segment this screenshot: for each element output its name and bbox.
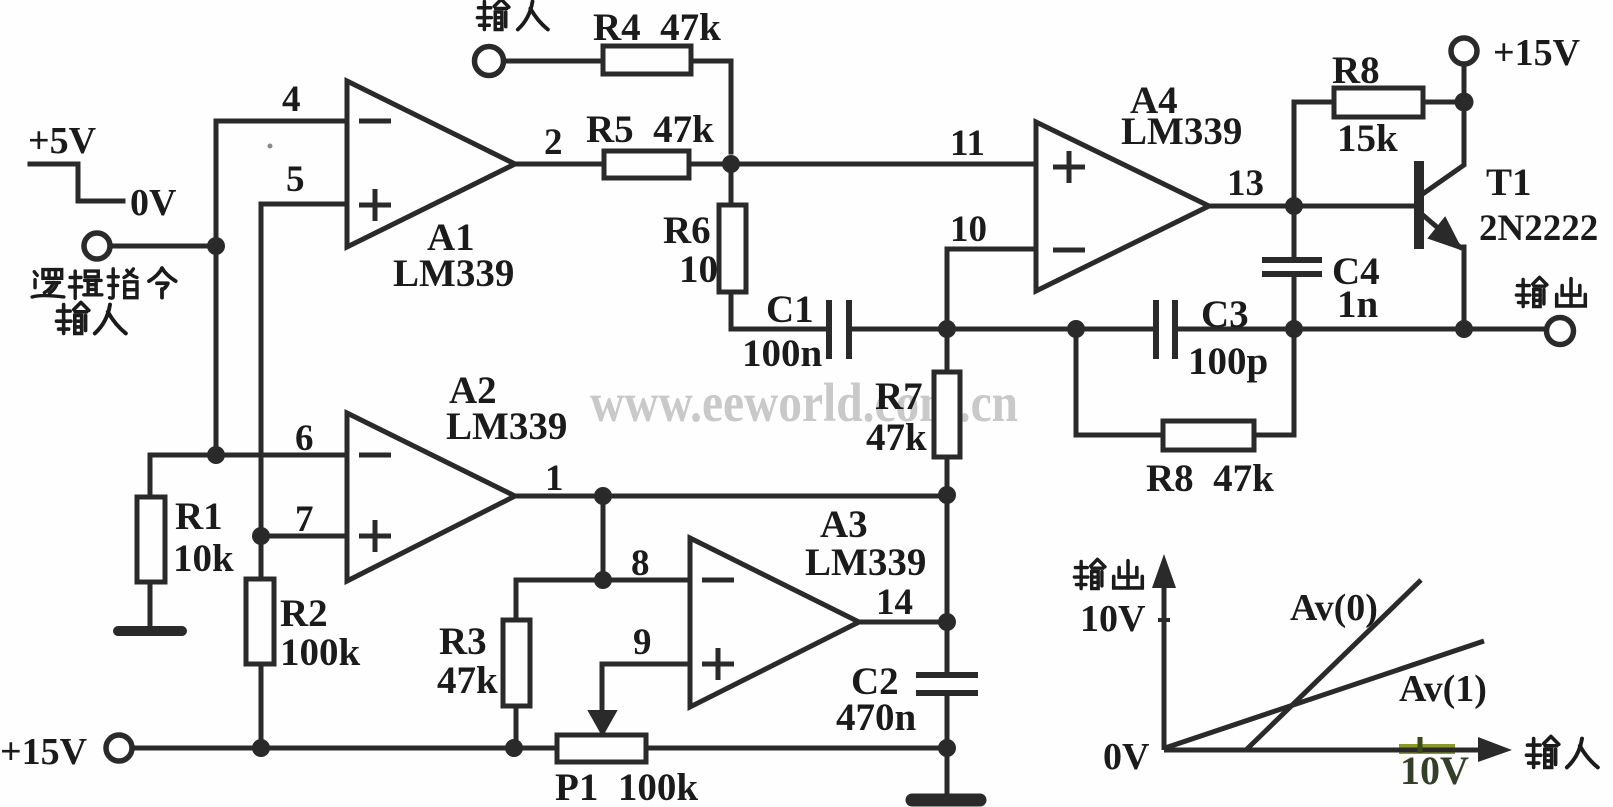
svg-text:10V: 10V	[1080, 598, 1146, 640]
wire node N1 to C3	[947, 327, 1152, 332]
svg-text:8: 8	[631, 543, 650, 584]
resistor R6	[719, 205, 746, 292]
resistor R8 15k	[1334, 88, 1423, 117]
svg-text:10V: 10V	[1400, 748, 1469, 793]
svg-text:100k: 100k	[280, 631, 361, 674]
graph line Av0	[1247, 580, 1421, 749]
svg-text:R4 47k: R4 47k	[593, 6, 721, 49]
svg-text:R6: R6	[663, 209, 711, 252]
node junction rail C2	[938, 739, 956, 757]
wire output row	[1294, 327, 1547, 332]
wire emitter to output row	[1462, 247, 1467, 329]
wire R6 to C1 row	[731, 292, 824, 329]
label 输入 top	[477, 0, 548, 30]
wire R7 top lead	[945, 329, 950, 372]
label 输出 terminal	[1516, 277, 1585, 306]
svg-text:7: 7	[295, 499, 314, 540]
wire A2 output row	[515, 494, 947, 499]
wire +15V rail	[132, 746, 557, 751]
svg-text:R8: R8	[1332, 49, 1380, 92]
node junction pin8	[594, 571, 612, 589]
wire A2 pin6 row	[150, 453, 347, 458]
svg-text:R1: R1	[175, 495, 223, 538]
wire R3 top lead	[514, 580, 519, 620]
node junction B	[722, 155, 740, 173]
node junction pin7	[252, 527, 270, 545]
wire R5 to node B	[689, 162, 731, 167]
node junction emitter out	[1455, 320, 1473, 338]
svg-text:13: 13	[1227, 163, 1264, 204]
svg-text:10k: 10k	[173, 537, 234, 580]
svg-text:47k: 47k	[866, 416, 927, 459]
transistor Q1 T1	[1414, 161, 1461, 249]
graph x tick	[1418, 737, 1423, 753]
node junction A3 out	[938, 613, 956, 631]
svg-text:R3: R3	[439, 620, 487, 663]
terminal +15V bottom	[106, 735, 132, 761]
node junction +15V R8	[1455, 93, 1474, 112]
svg-text:4: 4	[282, 79, 301, 120]
wire A1 output to R5	[515, 162, 604, 167]
node junction rail R3	[505, 739, 523, 757]
svg-text:LM339: LM339	[1121, 110, 1242, 153]
resistor R8 47k	[1163, 421, 1254, 450]
node junction A input	[207, 237, 225, 255]
svg-text:1: 1	[545, 458, 564, 499]
node junction A2 out	[594, 487, 612, 505]
svg-text:Av(1): Av(1)	[1399, 668, 1487, 710]
wire A1 pin5	[261, 204, 347, 536]
svg-text:LM339: LM339	[393, 252, 514, 295]
wire node N3 to C4	[1292, 276, 1297, 329]
op-amp A4	[1036, 122, 1209, 291]
svg-text:10: 10	[950, 209, 987, 250]
wire R2 top lead	[259, 536, 264, 579]
wire R3 bottom lead	[514, 706, 519, 748]
label 输入 logic	[56, 302, 125, 333]
svg-text:100n: 100n	[742, 332, 823, 375]
wire node N2 feedback drop	[1076, 329, 1163, 435]
graph y arrowhead	[1152, 554, 1176, 588]
svg-text:+15V: +15V	[0, 731, 88, 773]
wire A4 pin10 bend	[947, 249, 1036, 329]
resistor R2	[246, 579, 274, 664]
wire A2 pin7 row	[261, 534, 347, 539]
svg-text:LM339: LM339	[805, 541, 926, 584]
speck	[268, 144, 273, 149]
graph line Av1	[1165, 641, 1484, 748]
wire rail P1 to C2 node	[646, 746, 947, 751]
wire node B to A4 pin11	[731, 162, 1036, 167]
label 逻辑指令	[32, 268, 176, 298]
wire vertical node A column	[214, 121, 219, 455]
svg-text:0V: 0V	[1103, 736, 1150, 778]
svg-text:14: 14	[876, 582, 913, 623]
label 输出 graph	[1074, 559, 1142, 588]
op-amp A1	[347, 81, 515, 247]
wire R7 bottom lead	[945, 457, 950, 496]
resistor R5	[604, 151, 689, 178]
node junction R7 bottom	[938, 486, 956, 504]
node junction A pin6	[207, 446, 225, 464]
label 输入 graph	[1526, 736, 1597, 767]
potentiometer P1	[557, 735, 646, 762]
svg-text:9: 9	[633, 622, 652, 663]
svg-text:LM339: LM339	[446, 405, 567, 448]
wire R1 top lead	[148, 455, 153, 497]
capacitor C4	[1262, 260, 1322, 274]
wire T1 emitter	[1424, 216, 1460, 247]
wire R8b to node N3	[1254, 329, 1294, 435]
terminal logic input	[84, 233, 110, 259]
svg-text:T1: T1	[1486, 161, 1532, 204]
graph 10V highlight	[1399, 744, 1455, 754]
terminal input top	[475, 47, 504, 76]
svg-text:R8 47k: R8 47k	[1146, 457, 1274, 500]
ground below C2	[912, 794, 980, 807]
wire R8 to +15V node	[1423, 100, 1464, 105]
graph y tick	[1158, 618, 1170, 622]
wire node B to R6	[729, 164, 734, 205]
wire node C2 column	[945, 496, 950, 672]
wire A3 pin9 row	[602, 664, 690, 712]
node junction A4 out	[1285, 197, 1303, 215]
svg-text:R5 47k: R5 47k	[586, 108, 714, 151]
wire C3 to node N3	[1177, 327, 1294, 332]
wire R1 bottom lead	[148, 582, 153, 628]
graph axes	[1164, 578, 1482, 750]
svg-text:47k: 47k	[437, 659, 498, 702]
graph x arrowhead	[1478, 737, 1512, 762]
resistor R4	[603, 46, 691, 74]
svg-text:C1: C1	[766, 288, 814, 331]
wire C4 to A4 output node	[1292, 206, 1297, 256]
svg-text:0V: 0V	[130, 182, 177, 224]
wire logic input to node A	[110, 244, 216, 249]
wire A3 pin8 row	[516, 578, 690, 583]
svg-text:2: 2	[544, 122, 563, 163]
svg-text:11: 11	[950, 123, 985, 164]
svg-text:P1 100k: P1 100k	[555, 766, 698, 807]
wire C2 ground drop	[945, 748, 950, 796]
svg-text:+15V: +15V	[1493, 32, 1581, 74]
wire A3 output	[859, 620, 947, 625]
svg-text:6: 6	[295, 418, 314, 459]
capacitor C1	[829, 300, 849, 359]
svg-text:C3: C3	[1201, 293, 1249, 336]
node junction rail R2	[252, 739, 270, 757]
resistor R3	[503, 620, 530, 706]
svg-text:15k: 15k	[1337, 117, 1398, 160]
wire R2 bottom lead	[259, 664, 264, 748]
resistor R7	[934, 372, 960, 457]
svg-text:A3: A3	[820, 503, 868, 546]
ground below R1	[118, 626, 182, 636]
node junction N1	[938, 320, 956, 338]
wire T1 collector	[1424, 102, 1464, 193]
wire C2 bottom lead	[945, 696, 950, 748]
svg-text:100p: 100p	[1188, 340, 1268, 383]
wire A1 pin4	[216, 119, 347, 124]
wire A4 out node pullup	[1294, 102, 1334, 206]
op-amp A3	[690, 538, 859, 707]
capacitor C2	[916, 675, 978, 693]
svg-text:470n: 470n	[836, 696, 917, 739]
P1 wiper arrow	[589, 664, 616, 735]
node junction N3	[1285, 320, 1303, 338]
op-amp A2	[347, 413, 515, 581]
capacitor C3	[1156, 300, 1175, 359]
svg-text:10: 10	[679, 248, 718, 291]
wire +15V terminal lead	[1462, 64, 1467, 102]
wire node pin8 drop	[601, 496, 606, 580]
terminal output	[1547, 318, 1574, 345]
wire C1 to node N1	[853, 327, 947, 332]
svg-text:1n: 1n	[1337, 283, 1379, 326]
resistor R1	[137, 497, 165, 582]
svg-text:Av(0): Av(0)	[1290, 587, 1378, 629]
svg-text:2N2222: 2N2222	[1479, 208, 1598, 249]
wire input terminal to R4	[503, 59, 603, 64]
svg-text:+5V: +5V	[28, 120, 97, 162]
terminal +15V top	[1451, 38, 1477, 64]
wire R4 to node B	[691, 61, 731, 152]
+5V step waveform	[30, 164, 123, 201]
wire A4 output to T1 base	[1209, 204, 1414, 209]
svg-text:R7: R7	[875, 375, 923, 418]
svg-text:5: 5	[286, 159, 305, 200]
node junction N2	[1067, 320, 1085, 338]
svg-text:R2: R2	[280, 592, 328, 635]
